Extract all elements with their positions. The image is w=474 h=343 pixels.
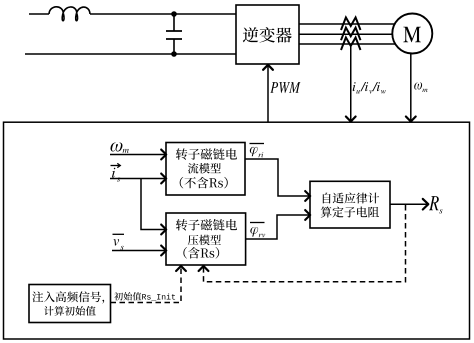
init block label line2 <box>44 306 96 316</box>
label i_s vector <box>111 163 121 181</box>
wire top DC bus left segment <box>29 13 49 15</box>
label PWM <box>270 82 300 93</box>
wire Rs output <box>390 203 428 205</box>
current model label line2 <box>188 163 221 174</box>
arrow Rs output <box>423 199 429 210</box>
label omega_m top <box>414 83 427 93</box>
voltage model label line3 <box>183 247 219 259</box>
arrow Rs feedback into voltage model <box>199 266 209 271</box>
wire PWM <box>267 66 269 122</box>
arrow i_s into current model <box>161 174 166 184</box>
current model label line3 <box>180 177 228 189</box>
current sensor zigzag phase V <box>341 28 361 41</box>
node junction top of C1 <box>171 11 177 17</box>
label Rs <box>429 196 442 213</box>
capacitor C1 <box>166 14 182 54</box>
adaptive law block <box>310 181 390 228</box>
estimator outer box <box>4 122 470 339</box>
current model block <box>166 143 245 196</box>
arrow phi_rv into adaptive law <box>305 210 310 220</box>
label iu iv iw <box>353 82 386 94</box>
arrow current tap into estimator box <box>346 117 356 122</box>
current model label line1 <box>176 148 237 160</box>
label omega_m input <box>110 143 128 153</box>
voltage model label line2 <box>188 235 221 245</box>
dashed wire Rs_Init <box>111 268 182 303</box>
HF injection init block <box>29 285 111 323</box>
inverter block <box>236 5 299 64</box>
arrow PWM into inverter <box>263 65 273 70</box>
arrow omega_m into current model <box>161 150 166 160</box>
label phi_ri bar <box>250 144 265 158</box>
dashed wire Rs feedback <box>204 205 406 282</box>
adaptive law label line1 <box>323 192 379 203</box>
arrow phi_ri into adaptive law <box>305 191 310 201</box>
wire i_s branch to voltage model <box>141 179 166 230</box>
node junction bottom of C1 <box>171 51 177 57</box>
wire phase V <box>299 33 393 35</box>
wire phi_rv output <box>246 215 310 239</box>
wire top DC bus right segment <box>90 13 236 15</box>
label v_s bar <box>113 234 125 250</box>
motor M1 circle <box>392 14 432 54</box>
wire phi_ri output <box>245 159 310 196</box>
voltage model label line1 <box>176 219 237 231</box>
wire speed measurement tap <box>410 54 412 121</box>
label Rs_Init <box>142 294 175 301</box>
wire v_s input <box>112 250 166 252</box>
label phi_rv bar <box>250 223 265 238</box>
wire omega_m input <box>110 154 166 156</box>
voltage model block <box>166 213 246 265</box>
init block label line1 <box>32 291 104 303</box>
current sensor zigzag phase U <box>341 17 361 30</box>
label init value CJK <box>114 292 141 301</box>
wire i_s input <box>110 178 166 180</box>
inverter label 逆变器 <box>243 27 292 43</box>
current sensor zigzag phase W <box>341 37 361 50</box>
arrow v_s into voltage model <box>161 246 166 256</box>
wire current measurement tap <box>350 46 352 120</box>
arrow speed tap into estimator box <box>406 117 416 122</box>
wire phase U <box>299 23 395 25</box>
inductor L1 <box>49 7 90 21</box>
wire phase W <box>299 43 395 45</box>
arrow i_s branch into voltage model <box>161 225 166 235</box>
arrow Rs_Init into voltage model <box>176 266 186 271</box>
motor label M <box>403 27 421 42</box>
adaptive law label line2 <box>321 207 379 218</box>
wire bottom DC bus <box>25 53 236 55</box>
